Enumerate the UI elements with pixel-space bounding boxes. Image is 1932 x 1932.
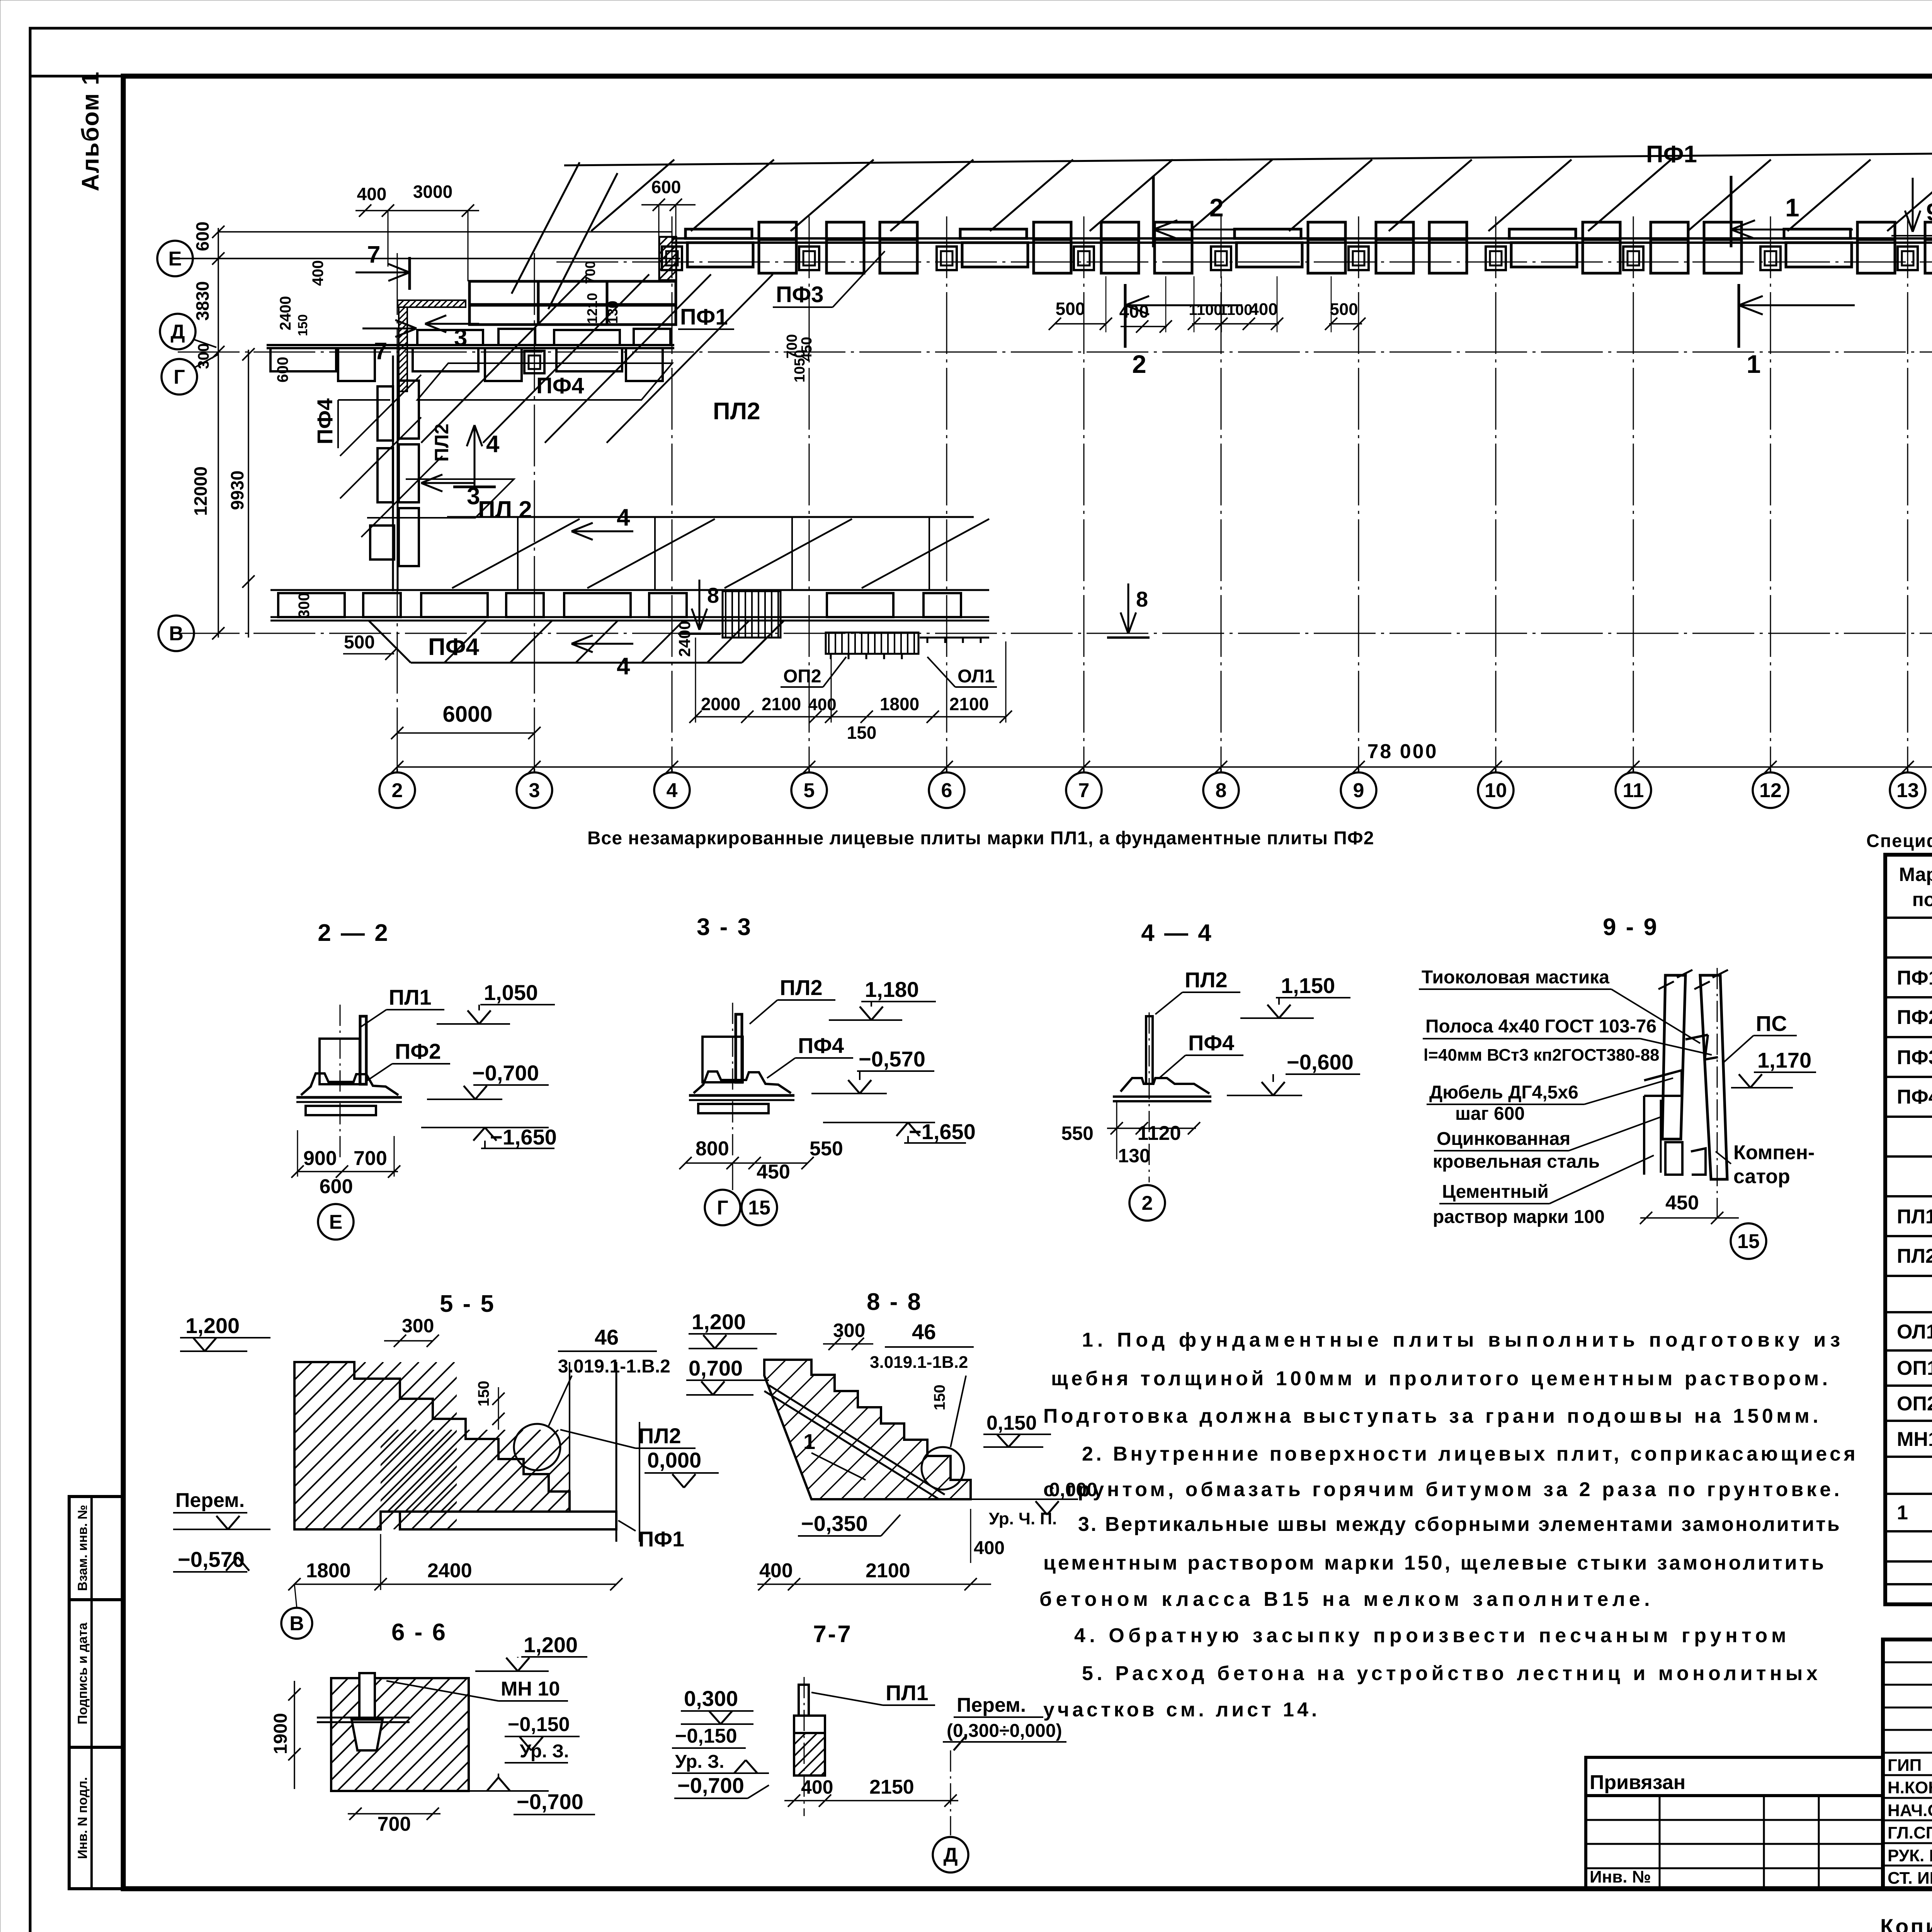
svg-text:9: 9 — [1353, 779, 1364, 802]
svg-text:2: 2 — [392, 779, 403, 802]
svg-text:Спецификация элементов к схеме: Спецификация элементов к схеме расположе… — [1866, 830, 1932, 851]
svg-text:9 - 9: 9 - 9 — [1603, 914, 1658, 940]
left wall plates — [399, 381, 419, 439]
svg-text:2400: 2400 — [675, 621, 694, 657]
svg-text:Цементный: Цементный — [1442, 1182, 1549, 1202]
lower platform joints — [517, 517, 519, 590]
svg-text:500: 500 — [344, 632, 375, 653]
svg-text:ПЛ2: ПЛ2 — [713, 398, 760, 425]
svg-text:1: 1 — [1785, 193, 1799, 222]
8-8 slope lines — [769, 1385, 945, 1495]
svg-text:9930: 9930 — [227, 471, 247, 510]
svg-text:400: 400 — [808, 695, 836, 714]
svg-text:Г: Г — [173, 366, 185, 388]
section mark 8 down — [699, 580, 701, 630]
section mark 4 arrows — [474, 425, 476, 487]
left wing plates above band — [417, 330, 483, 345]
section mark 3 left pair — [425, 323, 479, 325]
svg-text:ОП1: ОП1 — [1897, 1357, 1932, 1379]
svg-text:Г: Г — [717, 1197, 728, 1219]
svg-text:4: 4 — [617, 504, 630, 531]
5-5 elevation 1,200 — [180, 1350, 247, 1352]
left wing plates below band — [270, 348, 336, 371]
title block outer — [1883, 1639, 1932, 1889]
bubble 15 (9-9) — [1731, 1223, 1766, 1259]
small square at column 3 — [524, 351, 544, 373]
svg-text:150: 150 — [931, 1384, 948, 1410]
svg-text:Привязан: Привязан — [1590, 1771, 1685, 1794]
svg-text:−0,350: −0,350 — [801, 1511, 868, 1536]
svg-text:ПЛ2: ПЛ2 — [638, 1423, 681, 1448]
5-5 stepped mass — [294, 1362, 570, 1529]
svg-text:7-7: 7-7 — [813, 1621, 852, 1648]
svg-text:0,000: 0,000 — [647, 1448, 701, 1472]
svg-text:4: 4 — [667, 779, 678, 802]
svg-text:ПЛ2: ПЛ2 — [1185, 968, 1228, 992]
svg-text:700: 700 — [378, 1813, 411, 1835]
svg-text:13: 13 — [1896, 779, 1919, 802]
svg-text:500: 500 — [1330, 300, 1358, 319]
svg-text:Инв. N подл.: Инв. N подл. — [75, 1777, 90, 1859]
svg-text:550: 550 — [1061, 1122, 1094, 1144]
svg-text:4. Обратную засыпку произвести: 4. Обратную засыпку произвести песчаным … — [1074, 1624, 1790, 1647]
top band axis — [556, 262, 1932, 263]
svg-text:ПФ4: ПФ4 — [313, 398, 337, 444]
svg-text:0,300: 0,300 — [684, 1686, 738, 1711]
svg-text:−0,570: −0,570 — [178, 1547, 245, 1571]
dim 6000 left — [397, 732, 534, 734]
svg-text:l=40мм ВСт3 кп2ГОСТ380-88: l=40мм ВСт3 кп2ГОСТ380-88 — [1423, 1046, 1660, 1065]
svg-text:ПФ4: ПФ4 — [1897, 1086, 1932, 1108]
elevation -0,700 (2-2) — [427, 1099, 502, 1100]
svg-text:Инв. №: Инв. № — [1590, 1867, 1651, 1886]
9-9 left facing plate — [1662, 975, 1685, 1139]
left vertical dim chain — [218, 228, 219, 638]
svg-text:Д: Д — [943, 1844, 957, 1866]
svg-text:Оцинкованная: Оцинкованная — [1437, 1129, 1570, 1149]
stair 1 — [723, 591, 781, 638]
svg-text:2. Внутренние поверхности лице: 2. Внутренние поверхности лицевых плит, … — [1082, 1443, 1858, 1465]
svg-text:Ур. Ч. П.: Ур. Ч. П. — [989, 1509, 1057, 1528]
svg-text:МН10: МН10 — [1897, 1428, 1932, 1451]
bubble Е (2-2) — [318, 1204, 354, 1240]
svg-text:1: 1 — [1747, 350, 1761, 378]
7-7 dims 400 2150 — [784, 1800, 958, 1801]
svg-text:цементным раствором марки 150,: цементным раствором марки 150, щелевые с… — [1043, 1552, 1826, 1574]
9-9 compensator loop — [1691, 1148, 1706, 1175]
svg-text:ГЛ.СПЕЦ.: ГЛ.СПЕЦ. — [1888, 1823, 1932, 1842]
svg-text:11: 11 — [1623, 779, 1644, 802]
6-6 elevation 1,200 — [475, 1670, 549, 1672]
9-9 right wall panel ПС — [1700, 975, 1727, 1179]
svg-text:6: 6 — [941, 779, 952, 802]
section mark 8 right — [1128, 583, 1129, 634]
svg-text:РУК. ГР.: РУК. ГР. — [1888, 1846, 1932, 1865]
svg-text:Подпись и дата: Подпись и дата — [75, 1622, 90, 1725]
svg-text:7: 7 — [374, 338, 387, 365]
svg-text:300: 300 — [296, 592, 313, 618]
column grid axes 2..15 — [397, 253, 398, 769]
svg-text:Компен-: Компен- — [1733, 1141, 1815, 1164]
svg-text:150: 150 — [296, 314, 310, 336]
svg-text:0,150: 0,150 — [986, 1412, 1037, 1434]
svg-text:10: 10 — [1485, 779, 1507, 802]
bottom band lines — [270, 589, 989, 591]
svg-text:−0,150: −0,150 — [508, 1713, 570, 1736]
section detail figure at 880 — [360, 1016, 366, 1084]
svg-text:ОЛ1: ОЛ1 — [1897, 1321, 1932, 1343]
top band plates ПФ1/ПЛ1 repeating — [662, 247, 682, 270]
bubble Г — [162, 359, 197, 395]
left wall hatch strokes — [340, 417, 421, 498]
svg-text:МН 10: МН 10 — [501, 1678, 560, 1700]
svg-text:4: 4 — [486, 431, 500, 457]
svg-text:15: 15 — [748, 1197, 770, 1219]
dim 500 / 300 bottom left — [343, 653, 394, 655]
left wall vertical lines — [392, 355, 394, 591]
section mark 1 top — [1730, 176, 1733, 247]
svg-text:1800: 1800 — [880, 694, 919, 714]
svg-text:ОЛ1: ОЛ1 — [957, 666, 995, 687]
svg-text:300: 300 — [833, 1320, 865, 1341]
svg-text:Перем.: Перем. — [957, 1694, 1026, 1716]
svg-text:1120: 1120 — [1138, 1122, 1181, 1145]
svg-text:3: 3 — [454, 325, 467, 351]
svg-text:Е: Е — [168, 248, 182, 270]
bubble Е — [157, 241, 193, 276]
7-7 pier figure — [799, 1685, 809, 1716]
svg-text:900: 900 — [303, 1147, 337, 1170]
dim 450 (9-9) — [1640, 1217, 1739, 1219]
dims 550 1120 130 (4-4) — [1107, 1128, 1196, 1129]
svg-text:8 - 8: 8 - 8 — [867, 1289, 922, 1315]
svg-text:Полоса 4х40 ГОСТ 103-76: Полоса 4х40 ГОСТ 103-76 — [1425, 1016, 1656, 1037]
guide verticals for band sub-dims — [1105, 276, 1107, 332]
svg-text:4 — 4: 4 — 4 — [1141, 920, 1213, 946]
svg-text:ПФ1: ПФ1 — [638, 1527, 684, 1551]
svg-text:ПФ2: ПФ2 — [395, 1039, 441, 1063]
svg-text:3000: 3000 — [413, 182, 452, 202]
svg-text:1: 1 — [1897, 1502, 1908, 1524]
svg-text:ПФ1: ПФ1 — [1897, 967, 1932, 989]
svg-text:1,200: 1,200 — [524, 1633, 578, 1657]
svg-text:ПЛ1: ПЛ1 — [1897, 1206, 1932, 1228]
svg-text:8: 8 — [1216, 779, 1227, 802]
svg-text:ПФ1: ПФ1 — [1646, 141, 1697, 168]
bubble В — [158, 616, 194, 651]
svg-text:раствор марки 100: раствор марки 100 — [1433, 1207, 1605, 1227]
6-6 inner anchor — [359, 1673, 375, 1719]
svg-text:8: 8 — [707, 583, 719, 607]
svg-text:с грунтом, обмазать горячим би: с грунтом, обмазать горячим битумом за 2… — [1043, 1478, 1843, 1501]
railing feet right part — [927, 638, 929, 643]
svg-text:3.019.1-1.В.2: 3.019.1-1.В.2 — [558, 1356, 670, 1377]
small parallelogram ПЛ2 lower left — [367, 479, 514, 518]
8-8 elevation 0,700 — [686, 1394, 753, 1396]
svg-text:ПФ4: ПФ4 — [798, 1033, 844, 1058]
svg-text:130: 130 — [1118, 1145, 1150, 1167]
svg-text:2400: 2400 — [277, 296, 294, 330]
svg-text:1,150: 1,150 — [1281, 973, 1335, 998]
9-9 joint sheet steel Z — [1685, 1035, 1708, 1039]
svg-text:300: 300 — [195, 343, 212, 369]
left wing band lines (rows Д/Г) — [267, 344, 674, 346]
svg-text:−0,150: −0,150 — [675, 1725, 737, 1747]
svg-text:3 - 3: 3 - 3 — [697, 914, 752, 940]
5-5 bottom slab — [400, 1512, 616, 1529]
elevation 1,050 (2-2) — [437, 1023, 510, 1025]
stair dims row — [696, 716, 1006, 718]
svg-text:5 - 5: 5 - 5 — [440, 1291, 495, 1317]
svg-text:450: 450 — [757, 1161, 790, 1183]
section mark 2 bottom — [1124, 284, 1127, 348]
svg-text:4: 4 — [617, 653, 630, 680]
svg-text:400: 400 — [974, 1538, 1005, 1558]
svg-text:550: 550 — [810, 1138, 843, 1160]
svg-text:В: В — [289, 1612, 304, 1635]
svg-text:600: 600 — [192, 221, 213, 251]
svg-text:600: 600 — [320, 1175, 353, 1198]
9-9 cement wedge left — [1644, 1070, 1682, 1096]
dims 800 450 550 (3-3) — [685, 1162, 808, 1164]
section mark 1 bottom — [1738, 284, 1740, 348]
svg-text:600: 600 — [274, 357, 291, 383]
svg-text:−0,600: −0,600 — [1287, 1050, 1354, 1074]
9-9 axis — [1717, 968, 1718, 1217]
svg-text:400: 400 — [759, 1560, 793, 1582]
svg-text:Н.КОНТР.: Н.КОНТР. — [1888, 1778, 1932, 1797]
svg-text:ПЛ 2: ПЛ 2 — [478, 497, 532, 523]
svg-text:ПФ4: ПФ4 — [536, 373, 584, 398]
svg-text:ПЛ2: ПЛ2 — [780, 975, 823, 1000]
svg-text:Тиоколовая мастика: Тиоколовая мастика — [1422, 967, 1609, 988]
section 9 marks — [1912, 178, 1914, 232]
4-4 figure — [1146, 1016, 1153, 1084]
svg-text:Альбом 1: Альбом 1 — [77, 71, 104, 191]
8-8 elevation 1,200 — [689, 1348, 757, 1349]
svg-text:6 - 6: 6 - 6 — [391, 1619, 447, 1646]
svg-text:кровельная сталь: кровельная сталь — [1433, 1151, 1600, 1172]
svg-text:150: 150 — [475, 1381, 492, 1406]
svg-text:В: В — [169, 622, 184, 645]
svg-text:ПФ4: ПФ4 — [1188, 1031, 1234, 1055]
svg-text:НАЧ.ОТД.: НАЧ.ОТД. — [1888, 1801, 1932, 1820]
svg-text:ПЛ1: ПЛ1 — [886, 1680, 929, 1705]
svg-text:−0,700: −0,700 — [677, 1773, 744, 1798]
svg-text:2100: 2100 — [949, 694, 989, 714]
bubble Д (7-7) — [933, 1837, 968, 1872]
privyazan table — [1586, 1796, 1883, 1889]
svg-text:Все незамаркированные лицевые: Все незамаркированные лицевые плиты марк… — [587, 828, 1374, 849]
main dimension line 78000 — [397, 766, 1932, 768]
svg-text:поз.: поз. — [1912, 889, 1932, 910]
svg-text:−1,650: −1,650 — [909, 1119, 976, 1144]
svg-text:800: 800 — [696, 1138, 729, 1160]
roof edge line — [564, 151, 1932, 165]
6-6 dim 1900 — [294, 1681, 295, 1789]
svg-text:5. Расход бетона на устройство: 5. Расход бетона на устройство лестниц и… — [1082, 1662, 1821, 1685]
svg-text:6000: 6000 — [442, 702, 492, 727]
svg-text:600: 600 — [651, 177, 681, 197]
svg-text:−0,700: −0,700 — [517, 1789, 583, 1814]
bubble Д — [160, 314, 196, 349]
8-8 elevation 0,000 Ур.Ч.П. — [971, 1498, 1078, 1500]
svg-text:Марка,: Марка, — [1899, 864, 1932, 885]
elevation -0,570 (3-3) — [811, 1093, 887, 1094]
svg-text:ГИП: ГИП — [1888, 1756, 1922, 1775]
roof hatch diagonals — [591, 160, 674, 231]
row axis В long dash-dot — [178, 633, 1932, 634]
svg-text:500: 500 — [1056, 299, 1085, 319]
svg-text:0,700: 0,700 — [689, 1356, 743, 1380]
svg-text:2: 2 — [1209, 193, 1224, 222]
dim 600 row E — [218, 231, 672, 233]
svg-text:3830: 3830 — [192, 281, 213, 321]
5-5 dim 300 — [384, 1340, 433, 1342]
svg-text:ПФ2: ПФ2 — [1897, 1006, 1932, 1029]
section mark 7 upper — [355, 272, 410, 274]
5-5 dims 1800 2400 — [294, 1583, 616, 1585]
svg-text:участков см. лист 14.: участков см. лист 14. — [1043, 1699, 1320, 1721]
bottom apron parallelogram — [369, 621, 411, 663]
svg-text:7: 7 — [367, 241, 380, 268]
svg-text:5: 5 — [804, 779, 815, 802]
svg-text:Е: Е — [329, 1211, 343, 1233]
svg-text:1,180: 1,180 — [865, 977, 919, 1002]
svg-text:2: 2 — [1132, 350, 1146, 378]
5-5 plate verticals — [569, 1362, 570, 1512]
svg-text:2150: 2150 — [869, 1776, 914, 1798]
dim 600 at band start — [641, 204, 696, 206]
ramp diagonals upper (ПФ4 area) — [421, 274, 587, 443]
svg-text:ПЛ1: ПЛ1 — [389, 985, 432, 1009]
svg-text:ПФ1: ПФ1 — [680, 304, 728, 330]
section detail figure at 1896 — [736, 1014, 742, 1082]
svg-text:СТ. ИНЖ.: СТ. ИНЖ. — [1888, 1869, 1932, 1888]
dims 900 700 600 (2-2) — [298, 1171, 398, 1172]
leader lines near left wall — [337, 400, 339, 448]
svg-text:150: 150 — [847, 723, 877, 743]
9-9 small stub — [1665, 1142, 1682, 1175]
bubbles Г 15 (3-3) — [705, 1190, 740, 1225]
svg-text:Копировал: Копировал — [1880, 1914, 1932, 1932]
grid bubbles bottom row — [379, 772, 415, 808]
elevation -1,650 (2-2) — [421, 1127, 549, 1128]
8-8 stair body — [764, 1360, 971, 1499]
svg-text:щебня толщиной 100мм и пролито: щебня толщиной 100мм и пролитого цементн… — [1051, 1367, 1831, 1390]
svg-text:1210: 1210 — [584, 293, 600, 324]
lower platform diagonals — [452, 519, 580, 588]
svg-text:Дюбель ДГ4,5х6: Дюбель ДГ4,5х6 — [1429, 1082, 1578, 1103]
bubble В (5-5) — [281, 1608, 312, 1639]
svg-text:400: 400 — [801, 1776, 833, 1798]
svg-text:ПФ4: ПФ4 — [428, 634, 479, 660]
6-6 dim 700 — [348, 1813, 440, 1815]
6-6 elevation -0,700 — [456, 1790, 549, 1792]
svg-text:1900: 1900 — [270, 1713, 291, 1754]
dim 400/3000 top left — [355, 210, 479, 211]
elevation 1,150 (4-4) — [1240, 1017, 1314, 1019]
9-9 break marks top — [1658, 981, 1674, 989]
svg-text:700: 700 — [354, 1147, 387, 1170]
svg-text:8: 8 — [1136, 587, 1148, 611]
canopy diagonals left wing — [512, 162, 580, 294]
svg-text:1,200: 1,200 — [692, 1310, 746, 1334]
svg-text:1050: 1050 — [792, 350, 808, 383]
section mark 7 lower — [362, 328, 417, 330]
svg-text:−0,570: −0,570 — [859, 1047, 925, 1071]
svg-text:шаг 600: шаг 600 — [1455, 1104, 1525, 1124]
svg-text:ОП2: ОП2 — [1897, 1393, 1932, 1415]
svg-text:2400: 2400 — [427, 1560, 472, 1582]
svg-text:2100: 2100 — [866, 1560, 910, 1582]
svg-text:2: 2 — [1142, 1192, 1153, 1214]
svg-text:−0,700: −0,700 — [472, 1061, 539, 1085]
svg-text:1,200: 1,200 — [185, 1313, 240, 1338]
8-8 dim 300 46 — [823, 1343, 873, 1345]
svg-text:−1,650: −1,650 — [490, 1125, 557, 1149]
svg-text:1,170: 1,170 — [1757, 1048, 1811, 1072]
8-8 dims 400 2100 — [757, 1583, 991, 1585]
svg-text:ПЛ2: ПЛ2 — [1897, 1245, 1932, 1267]
svg-text:3. Вертикальные швы между сбор: 3. Вертикальные швы между сборными элеме… — [1078, 1513, 1841, 1536]
left margin stamp boxes — [69, 1497, 123, 1889]
svg-text:15: 15 — [1737, 1230, 1760, 1253]
svg-text:ПФ3: ПФ3 — [1897, 1046, 1932, 1069]
svg-text:400: 400 — [357, 184, 387, 204]
row axis Г long dash-dot — [178, 352, 1932, 353]
svg-text:2100: 2100 — [762, 694, 801, 714]
elevation 1,180 (3-3) — [829, 1019, 902, 1021]
svg-text:1: 1 — [803, 1429, 815, 1454]
svg-text:400: 400 — [1249, 300, 1277, 319]
svg-text:Ур. З.: Ур. З. — [675, 1752, 724, 1772]
stair 2 — [826, 633, 918, 654]
lower platform back edge — [447, 516, 974, 518]
svg-text:ПС: ПС — [1756, 1011, 1787, 1036]
svg-text:Д: Д — [170, 321, 185, 343]
svg-text:1800: 1800 — [306, 1560, 351, 1582]
svg-text:400: 400 — [1119, 301, 1149, 321]
6-6 hatched block — [331, 1678, 469, 1791]
svg-text:Ур. З.: Ур. З. — [520, 1741, 569, 1762]
top band main lines — [672, 237, 1932, 240]
elevation -1,650 (3-3) — [823, 1122, 935, 1123]
svg-text:78 000: 78 000 — [1367, 740, 1438, 763]
apron diagonals — [444, 621, 486, 663]
svg-text:9: 9 — [1926, 199, 1932, 226]
svg-text:ОП2: ОП2 — [783, 666, 821, 687]
elevation 1,170 (9-9) — [1731, 1087, 1793, 1088]
svg-text:сатор: сатор — [1733, 1165, 1790, 1188]
bottom band plates — [278, 593, 345, 617]
railing feet under stair 2 — [830, 654, 832, 659]
svg-text:700: 700 — [582, 261, 598, 284]
svg-text:Перем.: Перем. — [175, 1489, 245, 1512]
svg-text:7: 7 — [1078, 779, 1090, 802]
elevation -0,600 (4-4) — [1227, 1095, 1302, 1096]
svg-text:1,050: 1,050 — [484, 980, 538, 1005]
svg-text:ПЛ2: ПЛ2 — [431, 423, 452, 462]
big plate block rows (ПФ1 under row Е) — [469, 281, 538, 304]
svg-text:2 — 2: 2 — 2 — [318, 920, 389, 946]
bubble 2 (4-4) — [1129, 1185, 1165, 1221]
band sub-dims 500 400 1100 1100 400 500 — [1055, 323, 1106, 325]
svg-text:3: 3 — [529, 779, 540, 802]
svg-text:Взам. инв. №: Взам. инв. № — [75, 1505, 90, 1591]
svg-text:12000: 12000 — [190, 466, 211, 516]
svg-text:450: 450 — [1665, 1192, 1699, 1214]
